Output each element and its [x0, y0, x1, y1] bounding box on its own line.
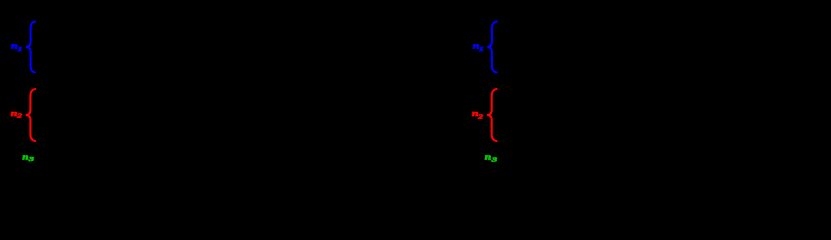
svg-text:1: 1: [17, 46, 22, 53]
label n2 left: [11, 110, 22, 120]
svg-text:n: n: [485, 153, 492, 162]
svg-text:3: 3: [28, 156, 34, 163]
svg-text:1: 1: [479, 46, 484, 53]
svg-text:n: n: [22, 153, 28, 162]
brace n1 right (blue curly brace): [487, 22, 497, 73]
svg-text:2: 2: [477, 113, 483, 120]
label n2 right: [472, 110, 483, 120]
label n1 right: [473, 42, 484, 53]
svg-text:3: 3: [491, 155, 498, 162]
brace n2 right (red curly brace): [487, 89, 496, 141]
brace n2 left (red curly brace): [26, 89, 35, 141]
label n3 right (green): [485, 153, 498, 163]
brace n1 left (blue curly brace): [26, 22, 35, 73]
svg-text:2: 2: [16, 113, 22, 120]
label n1 left: [11, 42, 22, 53]
label n3 left (green): [22, 153, 33, 163]
